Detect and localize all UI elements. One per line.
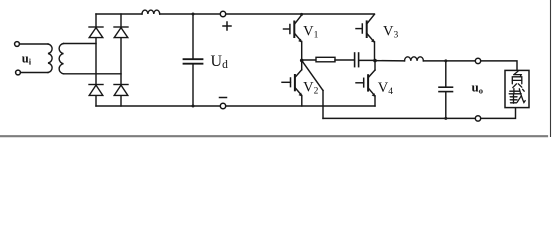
transformer T secondary winding — [59, 44, 63, 74]
output terminal top (circle) — [475, 58, 480, 63]
diode D2 (top-right) — [114, 27, 128, 38]
wire node a to commutation branch — [302, 59, 316, 61]
wire output return horizontal — [323, 108, 516, 119]
dc link terminal - (circle on bottom rail) — [220, 103, 225, 108]
inductor L3 (output filter) — [405, 57, 424, 61]
capacitor Cd plates — [184, 59, 203, 64]
bridge left column — [95, 14, 97, 106]
inductor L1 (dc filter choke) — [142, 10, 160, 14]
svg-text:V4: V4 — [378, 80, 393, 97]
svg-text:uo: uo — [472, 80, 483, 96]
minus sign — [220, 97, 227, 99]
svg-text:ui: ui — [22, 52, 32, 67]
svg-text:V3: V3 — [383, 23, 398, 40]
diode D4 (bottom-right) — [114, 85, 128, 96]
transistor V4 — [356, 61, 376, 106]
node b (right leg midpoint) — [373, 59, 377, 63]
capacitor C3 bottom lead — [445, 92, 447, 119]
frame right border — [550, 0, 552, 137]
junction dot output top — [444, 59, 447, 62]
load text 载 (drawn strokes) — [509, 89, 525, 104]
bottom rail — [96, 105, 375, 107]
plus sign — [223, 22, 231, 30]
load box — [505, 70, 529, 107]
capacitor C3 plates — [439, 87, 453, 91]
wire output return vertical (crosses bottom rail) — [322, 91, 324, 119]
wire node b to output — [375, 60, 405, 62]
V1 emitter wire down to node a — [301, 42, 303, 61]
wire to load corner — [423, 61, 517, 71]
diode D1 (top-left) — [89, 27, 103, 38]
input terminal top — [15, 42, 20, 47]
wire secondary bottom to bridge right column — [64, 73, 122, 75]
transistor V1 — [284, 13, 304, 43]
inductor L2 (rectangle symbol) — [316, 57, 335, 62]
wire — [335, 59, 354, 61]
output terminal bottom (circle) — [475, 116, 480, 121]
top rail right segment — [160, 13, 375, 15]
junction dot top rail / Cd — [192, 13, 195, 16]
diode D3 (bottom-left) — [89, 85, 103, 96]
wire to node b — [359, 59, 375, 61]
frame bottom border — [0, 135, 547, 137]
svg-text:V1: V1 — [303, 23, 318, 40]
capacitor C3 (output filter) top lead — [445, 61, 447, 87]
top rail left segment — [96, 13, 142, 15]
capacitor Cd upper lead — [192, 14, 194, 59]
capacitor C2 (series) plates — [355, 53, 359, 67]
svg-text:Ud: Ud — [211, 53, 229, 71]
input terminal bottom — [16, 70, 21, 75]
wire secondary top to bridge left column — [64, 43, 97, 45]
node a (left leg midpoint) — [300, 59, 304, 63]
wire primary top — [20, 43, 48, 45]
wire primary bottom — [21, 72, 48, 74]
transistor V3 — [356, 14, 375, 60]
junction dot bottom rail / Cd — [192, 105, 195, 108]
bridge right column — [120, 14, 122, 106]
capacitor Cd lower lead — [192, 64, 194, 106]
dc link terminal + (circle on top rail) — [220, 11, 225, 16]
transformer T primary winding — [48, 44, 52, 73]
transistor V2 — [282, 60, 303, 106]
load text 负 (drawn strokes) — [512, 71, 522, 87]
wire node a to output return (diagonal) — [302, 60, 323, 90]
junction dot output bottom — [444, 117, 447, 120]
